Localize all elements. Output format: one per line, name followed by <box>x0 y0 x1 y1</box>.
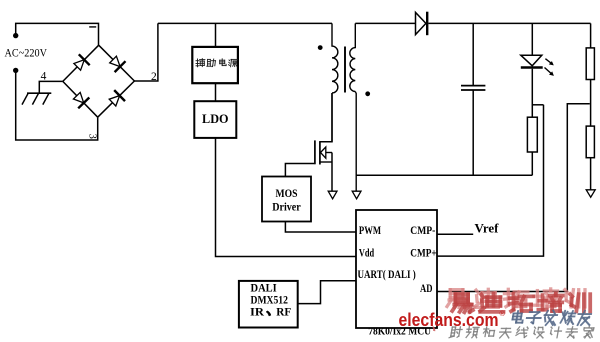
wire secondary return rail <box>356 174 532 176</box>
wire R2 to R3 <box>590 80 592 127</box>
transistor Q1 drain stub <box>320 93 332 142</box>
wire bridge pin 2 to DC+ rail <box>134 23 158 81</box>
resistor R2 (divider upper) <box>586 48 594 80</box>
transistor Q1 body arrow <box>321 147 326 158</box>
svg-text:MOS: MOS <box>276 188 298 200</box>
wire R1 to return rail <box>531 152 533 175</box>
label auxiliary power (CJK) <box>196 59 205 67</box>
wire CMP- to Vref <box>437 233 473 235</box>
svg-text:CMP-: CMP- <box>410 223 435 237</box>
svg-text:®: ® <box>500 309 506 318</box>
svg-text:IR: IR <box>250 306 265 318</box>
wire R3 to ground arrow <box>590 158 592 192</box>
block auxiliary power supply box <box>192 47 238 83</box>
wire AC neutral to bridge pin 3 <box>16 70 98 140</box>
wire rail to capacitor C1 <box>472 23 474 85</box>
transistor Q1 gate bar <box>314 140 316 164</box>
wire DALI box to MCU UART <box>298 281 356 304</box>
svg-text:3: 3 <box>87 134 98 139</box>
transformer T1 secondary winding <box>350 23 356 192</box>
ground arrow at secondary return <box>352 191 361 199</box>
svg-text:elecfans.com: elecfans.com <box>399 309 499 330</box>
wire MOS driver input from MCU PWM <box>285 222 356 233</box>
transistor Q1 source stub <box>320 161 332 163</box>
ground arrow at Q1 source <box>328 191 337 199</box>
svg-text:PWM: PWM <box>359 223 381 237</box>
transistor Q1 channel bar <box>319 141 321 164</box>
diode D4 (bridge bottom-right) <box>109 96 119 106</box>
watermark red apostrophe artifact <box>432 326 435 331</box>
diode D1 (bridge top-left) <box>74 60 84 70</box>
bridge rectifier BR1 bottom-left side wire <box>63 81 98 117</box>
block MOS driver U3 <box>262 177 311 222</box>
diode D2 (bridge top-right) <box>110 56 120 66</box>
bridge pin label 1 (rotated) <box>89 26 96 28</box>
wire rectifier to output rail <box>428 22 590 24</box>
wire secondary to rectifier diode D5 <box>355 22 415 24</box>
resistor R3 (divider lower) <box>586 126 594 158</box>
wire rail to LED D6 <box>531 23 533 55</box>
block DALI/DMX512/IR/RF interface <box>239 281 298 328</box>
wire LDO output to MCU Vdd <box>216 138 357 257</box>
wire CMP+ to LED cathode node <box>437 105 544 256</box>
bridge rectifier BR1 top-right side wire <box>99 45 135 81</box>
svg-text:LDO: LDO <box>202 112 229 126</box>
LED D6 <box>521 55 542 66</box>
node AC neutral terminal <box>13 68 18 73</box>
svg-text:Vref: Vref <box>475 220 500 235</box>
svg-text:RF: RF <box>276 306 291 318</box>
block MCU U1 78K0/Ix2 <box>356 210 437 328</box>
wire LED cathode down <box>531 69 533 118</box>
wire aux supply to LDO <box>215 83 217 101</box>
ground arrow at divider bottom <box>586 190 595 197</box>
wire rail to divider <box>590 23 592 48</box>
diode D3 (bridge bottom-left) <box>73 92 83 103</box>
svg-text:CMP+: CMP+ <box>410 245 437 259</box>
resistor R1 (LED current sense) <box>527 117 537 152</box>
watermark big red CJK (light copy) <box>447 290 468 308</box>
diode D5 output rectifier <box>416 12 426 34</box>
svg-text:Driver: Driver <box>272 202 301 214</box>
bridge rectifier BR1 top-left side wire <box>63 45 99 81</box>
svg-text:UART( DALI ): UART( DALI ) <box>358 267 416 281</box>
svg-text:Vdd: Vdd <box>359 245 375 259</box>
bridge rectifier BR1 bottom-right side wire <box>98 81 135 117</box>
wire rail to aux supply <box>215 23 217 47</box>
svg-text:AD: AD <box>420 281 433 295</box>
transformer T1 core <box>344 47 346 93</box>
wire DC+ top rail (primary side) <box>158 22 332 24</box>
block LDO U2 <box>194 101 236 138</box>
transistor Q1 source down wire <box>331 153 333 193</box>
svg-text:AC~220V: AC~220V <box>5 48 48 60</box>
transistor Q1 gate wire from driver <box>285 164 314 177</box>
watermark blue CJK slogan <box>512 311 524 323</box>
ground earth symbol <box>27 92 51 94</box>
capacitor C1 <box>461 85 485 87</box>
wire bridge pin 4 to earth <box>39 81 63 93</box>
wire AC live to bridge pin 1 <box>16 23 99 45</box>
wire AD to resistor divider tap <box>437 104 590 292</box>
watermark gray CJK slogan <box>449 327 462 338</box>
wire capacitor C1 to return rail <box>472 90 474 175</box>
wire LED node branch to CMP+ <box>532 104 543 106</box>
transformer T1 secondary phasing dot <box>365 91 370 96</box>
watermark big red CJK (main copy) <box>452 294 473 312</box>
transformer T1 primary phasing dot <box>318 45 323 50</box>
svg-text:DMX512: DMX512 <box>251 295 289 307</box>
svg-text:DALI: DALI <box>251 283 278 295</box>
transformer T1 primary winding <box>332 23 338 141</box>
node AC live terminal <box>13 33 18 38</box>
